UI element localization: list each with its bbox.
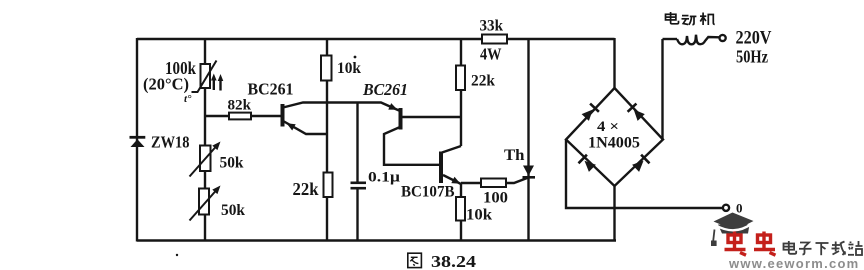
svg-text:50k: 50k (220, 155, 244, 172)
svg-text:10k: 10k (337, 60, 361, 77)
svg-text:www.eeworm.com: www.eeworm.com (728, 256, 859, 270)
svg-text:(20°C): (20°C) (143, 75, 189, 94)
svg-text:0.1µ: 0.1µ (368, 170, 401, 186)
svg-text:BC107B: BC107B (401, 184, 455, 201)
svg-text:10k: 10k (466, 207, 492, 224)
svg-text:50k: 50k (221, 202, 245, 219)
svg-text:33k: 33k (480, 18, 504, 35)
svg-text:220V: 220V (736, 28, 772, 49)
svg-text:BC261: BC261 (248, 80, 294, 99)
svg-text:4W: 4W (480, 45, 502, 64)
svg-text:0: 0 (736, 201, 743, 216)
svg-text:100: 100 (483, 190, 508, 207)
svg-text:Th: Th (504, 147, 525, 164)
svg-text:82k: 82k (228, 98, 252, 114)
svg-text:38.24: 38.24 (431, 252, 477, 270)
svg-text:50Hz: 50Hz (736, 47, 768, 67)
svg-text:22k: 22k (471, 73, 495, 90)
svg-text:4 ×: 4 × (597, 119, 619, 135)
svg-text:ZW18: ZW18 (151, 133, 190, 152)
svg-text:1N4005: 1N4005 (588, 135, 640, 152)
svg-text:BC261: BC261 (362, 80, 408, 99)
svg-text:22k: 22k (293, 179, 319, 199)
svg-text:t°: t° (184, 93, 192, 105)
